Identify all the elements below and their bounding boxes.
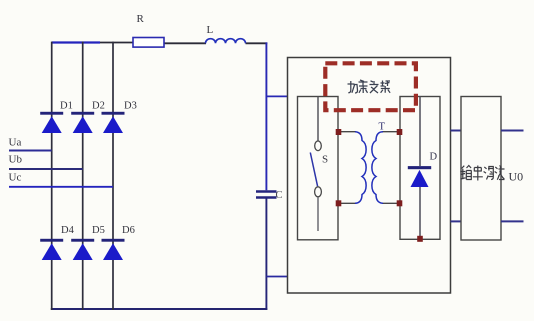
wire C-branch to converter block bottom bbox=[266, 276, 288, 278]
svg-text:D4: D4 bbox=[61, 225, 75, 236]
wire top bus (rectifier top to R) bbox=[52, 41, 133, 43]
diode D wire bottom bbox=[419, 187, 421, 239]
svg-text:L: L bbox=[207, 24, 214, 36]
transformer T primary top stub bbox=[339, 131, 357, 133]
transformer T secondary coil bbox=[372, 132, 383, 204]
svg-text:C: C bbox=[276, 190, 283, 201]
junction dot secondary bottom bbox=[397, 200, 403, 206]
svg-text:Ub: Ub bbox=[9, 154, 23, 166]
wire phase Ub bbox=[9, 168, 83, 170]
transformer T secondary bottom stub bbox=[382, 202, 400, 204]
wire rectifier column 2 bbox=[82, 42, 84, 310]
label 功率交换 bbox=[348, 80, 391, 93]
junction dot primary top bbox=[336, 129, 342, 135]
svg-text:T: T bbox=[379, 122, 386, 133]
transformer T primary coil bbox=[355, 132, 366, 204]
label 输出滤波 bbox=[460, 166, 504, 181]
wire phase Uc bbox=[9, 186, 113, 188]
diode D3 bbox=[102, 112, 125, 133]
wire phase Ua bbox=[9, 150, 52, 152]
wire rectifier column 1 bbox=[51, 42, 53, 310]
switch S wire bottom bbox=[317, 197, 319, 231]
wire bottom bus bbox=[51, 308, 267, 310]
power-exchange dashed box bbox=[325, 63, 416, 110]
transformer T primary bottom stub bbox=[339, 202, 357, 204]
svg-text:Ua: Ua bbox=[9, 137, 22, 149]
wire R to L bbox=[164, 42, 206, 44]
converter block outline bbox=[288, 58, 451, 294]
wire converter to filter top bbox=[451, 130, 462, 132]
wire C-branch vertical lower bbox=[265, 199, 267, 311]
svg-text:D: D bbox=[430, 152, 438, 163]
svg-text:D3: D3 bbox=[124, 101, 137, 112]
diode D bbox=[408, 166, 431, 187]
wire converter to filter bottom bbox=[451, 220, 462, 222]
transformer T secondary top stub bbox=[382, 131, 400, 133]
output filter block bbox=[461, 97, 501, 241]
capacitor C bbox=[256, 192, 277, 198]
diode D5 bbox=[71, 239, 94, 260]
switch S blade bbox=[310, 153, 317, 187]
diode sub-block outline bbox=[400, 97, 440, 240]
svg-text:D1: D1 bbox=[60, 101, 73, 112]
svg-text:S: S bbox=[322, 154, 328, 166]
wire filter output top bbox=[501, 130, 524, 132]
svg-text:D2: D2 bbox=[92, 101, 105, 112]
wire C-branch to converter block top bbox=[266, 95, 288, 97]
diode D4 bbox=[40, 239, 63, 260]
junction dot secondary top bbox=[397, 129, 403, 135]
switch S bottom contact bbox=[315, 187, 322, 197]
switch sub-block outline bbox=[298, 97, 339, 240]
svg-text:R: R bbox=[137, 13, 145, 25]
junction dot primary bottom bbox=[336, 200, 342, 206]
switch S wire top bbox=[317, 96, 319, 141]
diode D2 bbox=[71, 112, 94, 133]
svg-text:D6: D6 bbox=[122, 225, 135, 236]
junction dot diode bottom bbox=[417, 236, 423, 242]
wire rectifier column 3 bbox=[112, 42, 114, 310]
inductor L bbox=[206, 39, 246, 44]
svg-text:D5: D5 bbox=[92, 225, 105, 236]
svg-text:Uc: Uc bbox=[9, 172, 22, 184]
diode D6 bbox=[102, 239, 125, 260]
wire L to C-branch corner bbox=[246, 42, 268, 44]
wire C-branch vertical upper bbox=[265, 42, 267, 190]
diode D1 bbox=[40, 112, 63, 133]
wire filter output bottom bbox=[501, 220, 524, 222]
switch S top contact bbox=[315, 141, 322, 151]
diode D wire top bbox=[419, 96, 421, 166]
resistor R bbox=[133, 38, 164, 48]
svg-text:U0: U0 bbox=[509, 170, 524, 184]
